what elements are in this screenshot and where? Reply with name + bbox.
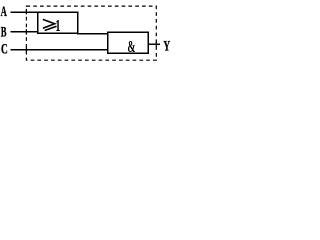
- svg-text:1: 1: [55, 17, 60, 36]
- svg-text:Y: Y: [163, 37, 170, 54]
- svg-text:A: A: [1, 3, 8, 20]
- svg-text:C: C: [1, 40, 8, 57]
- svg-text:&: &: [127, 37, 135, 55]
- svg-text:B: B: [1, 23, 7, 40]
